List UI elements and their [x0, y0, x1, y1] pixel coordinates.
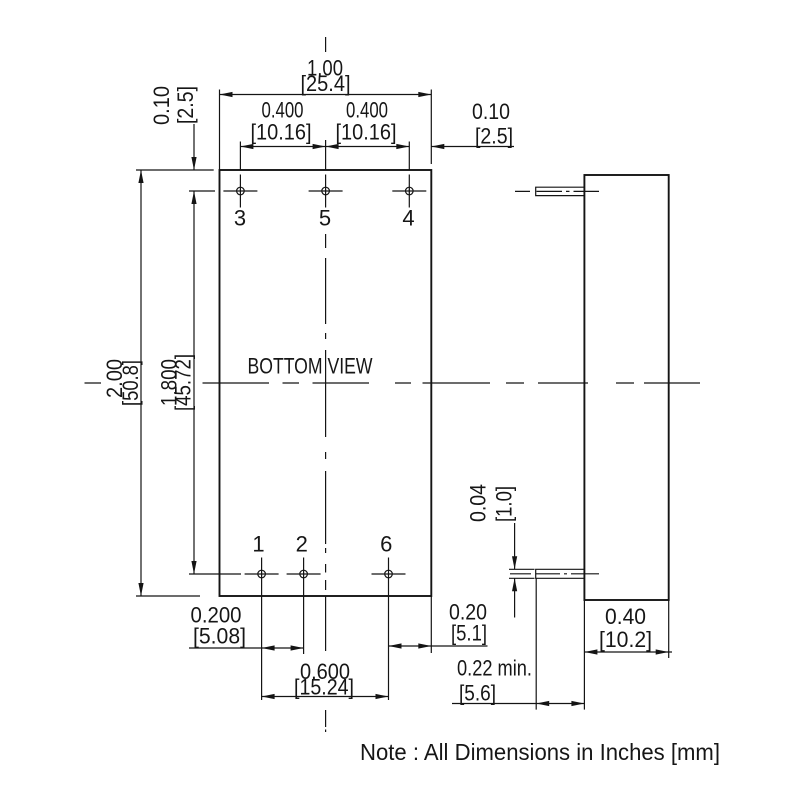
- arrowhead 0.400R right: [396, 144, 409, 149]
- arrowhead 0.10L down: [191, 157, 196, 170]
- svg-text:[5.6]: [5.6]: [459, 681, 496, 706]
- vertical centerline: [325, 37, 327, 732]
- arrowhead 2.00 down: [138, 583, 143, 596]
- arrowhead 0.40 left: [584, 649, 597, 654]
- arrowhead 0.20R left: [389, 643, 402, 648]
- svg-text:0.40: 0.40: [605, 604, 646, 629]
- side view top pin centerline: [515, 190, 599, 192]
- svg-text:[45.72]: [45.72]: [171, 354, 196, 411]
- extension line: pin2 down: [303, 591, 305, 655]
- arrowhead 0.04 up: [512, 578, 517, 591]
- svg-text:[15.24]: [15.24]: [294, 675, 354, 700]
- svg-text:[2.5]: [2.5]: [173, 86, 198, 124]
- svg-text:0.04: 0.04: [466, 484, 491, 522]
- svg-text:0.22 min.: 0.22 min.: [457, 656, 532, 681]
- arrowhead 0.600 left: [262, 694, 275, 699]
- arrowhead 1.00 right: [418, 92, 431, 97]
- extension line: pin5 up: [325, 140, 327, 170]
- extension line: side pin bottom edge left: [509, 577, 535, 579]
- extension line: side pin top edge left: [509, 568, 535, 570]
- dim line 0.600: [262, 696, 389, 698]
- svg-text:1: 1: [252, 532, 264, 557]
- arrowhead 0.04 down: [512, 556, 517, 569]
- dim line 0.400 left and right: [240, 146, 409, 148]
- svg-text:6: 6: [380, 532, 392, 557]
- dim line 1.800: [193, 191, 195, 574]
- arrowhead 0.20R right: [418, 643, 431, 648]
- extension line: top pin row to left: [189, 190, 215, 192]
- pin 4 crosshair: [392, 175, 426, 208]
- svg-text:[10.16]: [10.16]: [251, 120, 312, 145]
- arrowhead 0.22 left: [536, 701, 549, 706]
- pin 1 crosshair: [245, 558, 279, 591]
- extension line: bottom edge to left: [136, 595, 200, 597]
- bottom view body outline: [220, 170, 432, 596]
- extension line: side body left edge down: [583, 600, 585, 710]
- text halos: [101, 351, 517, 698]
- pin 6 crosshair: [372, 558, 406, 591]
- extension line: side body right edge down: [668, 600, 670, 658]
- dim line 0.10 right: [431, 146, 514, 148]
- side view body outline: [584, 175, 668, 600]
- svg-text:[10.2]: [10.2]: [599, 627, 652, 652]
- dim line 0.40: [584, 651, 672, 653]
- pin 5 crosshair: [309, 175, 343, 208]
- pin 2 crosshair: [287, 558, 321, 591]
- arrowhead 0.600 right: [376, 694, 389, 699]
- arrowhead 2.00 up: [138, 170, 143, 183]
- arrowhead 0.400L left: [240, 144, 253, 149]
- svg-text:0.10: 0.10: [149, 86, 174, 125]
- dim line 0.200: [189, 647, 304, 649]
- dim line 2.00: [140, 170, 142, 596]
- svg-text:[2.5]: [2.5]: [475, 124, 513, 149]
- arrowhead 0.40 right: [656, 649, 669, 654]
- svg-text:[5.1]: [5.1]: [451, 621, 487, 646]
- arrowhead 0.200 right: [291, 645, 304, 650]
- arrowhead 0.400L right: [313, 144, 326, 149]
- arrowhead 1.800 down: [191, 561, 196, 574]
- svg-text:[50.8]: [50.8]: [118, 360, 143, 406]
- arrowhead 0.200 left: [262, 645, 275, 650]
- extension line: pin3 up: [239, 142, 241, 171]
- horizontal centerline: [85, 382, 701, 384]
- svg-text:[1.0]: [1.0]: [492, 486, 517, 522]
- extension line: body right edge down: [430, 596, 432, 653]
- dim line 0.10 left vertical: [193, 124, 195, 170]
- extension line: bottom pin row to left: [189, 573, 241, 575]
- dim line 0.04 vertical: [514, 523, 516, 618]
- svg-text:Note : All Dimensions in Inche: Note : All Dimensions in Inches [mm]: [360, 739, 720, 765]
- svg-text:0.10: 0.10: [472, 99, 510, 124]
- extension line: body left edge up: [219, 90, 221, 171]
- side view bottom pin centerline: [510, 573, 599, 575]
- extension line: pin4 up: [408, 142, 410, 170]
- extension line: pin1 down: [261, 591, 263, 701]
- extension line: top edge to left: [136, 169, 214, 171]
- dim line 1.00: [220, 94, 432, 96]
- arrowhead 0.400R left: [326, 144, 339, 149]
- dim line 0.22 min: [452, 703, 584, 705]
- svg-text:2: 2: [296, 532, 308, 557]
- pin 3 crosshair: [223, 175, 257, 208]
- svg-text:5: 5: [319, 206, 331, 231]
- side view top pin (lead): [536, 187, 585, 195]
- svg-text:[5.08]: [5.08]: [193, 624, 246, 649]
- extension line: body right edge up: [430, 90, 432, 165]
- extension line: side pin tip down: [535, 578, 537, 709]
- arrowhead 0.10R left: [431, 144, 444, 149]
- dim line 0.20 right: [389, 645, 488, 647]
- extension line: pin6 down: [388, 591, 390, 701]
- svg-text:[25.4]: [25.4]: [301, 71, 351, 96]
- side view bottom pin (lead): [536, 569, 585, 578]
- svg-text:BOTTOM VIEW: BOTTOM VIEW: [248, 354, 373, 379]
- arrowhead 1.800 up: [191, 191, 196, 204]
- arrowhead 1.00 left: [220, 92, 233, 97]
- svg-text:[10.16]: [10.16]: [336, 120, 397, 145]
- arrowhead 0.22 right: [571, 701, 584, 706]
- svg-text:3: 3: [234, 206, 246, 231]
- svg-text:4: 4: [402, 206, 414, 231]
